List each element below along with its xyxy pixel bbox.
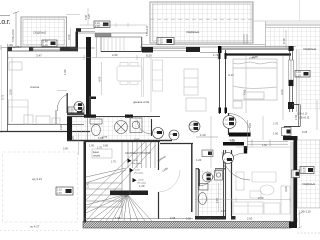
svg-text:1.90: 1.90: [273, 132, 279, 136]
svg-text:0.85: 0.85: [230, 140, 236, 144]
stair room walls: [84, 142, 194, 223]
dim lines lower: [12, 58, 290, 202]
wc door arc: [223, 153, 246, 170]
svg-text:0.25: 0.25: [302, 130, 308, 134]
interior wall vertical (hall/bedroom): [86, 37, 91, 115]
svg-text:1.20: 1.20: [301, 171, 306, 174]
svg-text:2.20: 2.20: [59, 124, 63, 130]
outer left faint line: [1, 47, 3, 133]
svg-text:СЕДЕЊЕ: СЕДЕЊЕ: [303, 47, 316, 51]
bathroom floor tiles: [72, 117, 152, 140]
living room furniture: [233, 172, 290, 214]
svg-text:СЕДЕЊЕ: СЕДЕЊЕ: [186, 30, 199, 34]
terrace T2 top-middle tiled floor: [150, 2, 253, 43]
window label box W2 above bay: [94, 21, 110, 28]
svg-text:3.26: 3.26: [67, 34, 71, 40]
svg-text:1.70: 1.70: [97, 147, 102, 150]
svg-text:1.20: 1.20: [200, 133, 206, 137]
svg-text:.О.Г.: .О.Г.: [0, 20, 11, 26]
svg-text:3.47: 3.47: [36, 54, 42, 58]
bottom walls: black bars + hatch: [0, 216, 297, 231]
window label box left lower: [56, 187, 73, 195]
svg-text:Но Смеш: Но Смеш: [135, 173, 144, 175]
svg-text:3.75: 3.75: [1, 94, 5, 100]
window label box on T3: [295, 71, 310, 78]
bedroom B1 furniture: [9, 62, 61, 124]
wardrobe tall rect: [184, 69, 206, 111]
svg-text:1.45: 1.45: [206, 217, 212, 221]
svg-text:1.60: 1.60: [262, 143, 268, 147]
svg-text:1.90: 1.90: [89, 144, 95, 148]
svg-text:1.90: 1.90: [98, 136, 104, 140]
svg-text:1.72: 1.72: [213, 53, 219, 57]
dim line vertical left of T1: [13, 12, 19, 49]
svg-text:+0.05: +0.05: [135, 170, 141, 172]
svg-text:2.05: 2.05: [158, 42, 163, 45]
stair treads and fan: [86, 142, 156, 221]
svg-text:2.00: 2.00: [258, 196, 264, 200]
svg-text:4.00: 4.00: [134, 138, 140, 142]
circled labels: [153, 116, 237, 164]
svg-text:СКАЛИШЕН ПРОСТОР: СКАЛИШЕН ПРОСТОР: [125, 152, 151, 155]
bedroom B1 left wall: [7, 47, 9, 131]
svg-text:+12.55: +12.55: [138, 180, 145, 182]
svg-text:5.08+3.00: 5.08+3.00: [11, 29, 15, 42]
bedroom B1 bottom walls: [0, 125, 90, 132]
svg-text:0.08: 0.08: [63, 148, 68, 151]
dim 1.00 left of bedroom: [1, 45, 21, 50]
window in B1 north wall: [33, 48, 60, 51]
entry walkway double lines: [247, 120, 288, 150]
svg-text:спална: спална: [30, 85, 40, 89]
right side dim verticals: [283, 30, 317, 130]
window label box left-center: [68, 107, 84, 115]
svg-text:0.25: 0.25: [72, 136, 75, 141]
terrace T3 lower part tiles: [298, 140, 320, 208]
svg-text:4.60: 4.60: [284, 186, 288, 192]
svg-text:СЕДЕЊЕ: СЕДЕЊЕ: [302, 182, 315, 186]
svg-text:1.75: 1.75: [111, 161, 116, 164]
svg-text:5.08: 5.08: [85, 15, 88, 20]
east wall steps (right side): [283, 46, 300, 224]
bathroom block walls: [67, 115, 172, 141]
bathroom fixtures: [88, 117, 143, 140]
svg-text:0.90+0.35: 0.90+0.35: [299, 118, 310, 120]
svg-text:2.05: 2.05: [95, 25, 100, 28]
terrace T3 right tiled floor: [253, 0, 320, 140]
svg-text:1.00: 1.00: [7, 43, 13, 47]
stair texts: [92, 149, 151, 158]
dashed line above bay: [66, 8, 147, 27]
svg-text:Едно: Едно: [93, 151, 100, 154]
WC tiled floor: [199, 170, 224, 215]
svg-text:4.05: 4.05: [98, 76, 102, 82]
svg-text:СЕДЕЊЕ: СЕДЕЊЕ: [33, 31, 46, 35]
stair rail dark: [110, 191, 148, 196]
terrace T1 top-left tiled floor: [21, 17, 67, 47]
svg-text:1.70: 1.70: [273, 122, 279, 126]
svg-text:2.10: 2.10: [282, 38, 286, 44]
svg-text:1.20: 1.20: [139, 184, 145, 188]
svg-text:нд 4.21: нд 4.21: [32, 177, 42, 181]
B1 door circled label: [74, 102, 84, 112]
svg-text:5.08+2.00: 5.08+2.00: [147, 25, 149, 36]
svg-text:писмо: писмо: [93, 155, 101, 158]
svg-text:дневна соба: дневна соба: [133, 100, 150, 104]
svg-text:1.90: 1.90: [63, 69, 67, 75]
svg-text:0.25: 0.25: [88, 14, 91, 19]
left lower void area faint: [3, 152, 78, 222]
svg-text:4.60: 4.60: [280, 89, 284, 95]
dining table center top: [117, 58, 144, 97]
svg-text:2.30: 2.30: [86, 182, 90, 188]
svg-text:2.00: 2.00: [247, 217, 253, 221]
svg-text:2.65: 2.65: [252, 55, 258, 59]
door label box on T2: [157, 38, 174, 45]
svg-text:1.20: 1.20: [43, 44, 48, 47]
svg-text:1.36+1.10: 1.36+1.10: [299, 210, 311, 214]
svg-text:2.90: 2.90: [112, 53, 118, 57]
B1 door arc: [57, 95, 67, 112]
dimension line row y57: [8, 55, 218, 60]
svg-text:по 4.27: по 4.27: [30, 225, 40, 229]
svg-text:+3.40: +3.40: [133, 160, 139, 162]
svg-text:1.98: 1.98: [115, 216, 121, 220]
bath door arc: [137, 120, 152, 135]
svg-text:8.20: 8.20: [146, 54, 152, 58]
svg-text:1.20: 1.20: [296, 74, 301, 77]
north wall bedroom B1: [7, 47, 78, 51]
living room walls: [160, 144, 232, 217]
corridor double wall going down: [219, 50, 228, 114]
bay window (x76-140, y28-52): [70, 28, 147, 57]
WC fixtures: [199, 171, 223, 205]
T2 right border verticals: [244, 34, 247, 44]
north wall center-right: [140, 45, 296, 55]
thin line below: [89, 96, 91, 116]
window label box on lower T3: [300, 167, 314, 174]
svg-text:0.90: 0.90: [103, 144, 109, 148]
short wall at its foot: [89, 97, 96, 100]
svg-text:0.05: 0.05: [186, 218, 191, 221]
svg-text:0.25: 0.25: [249, 123, 252, 128]
bed right bedroom: [233, 59, 277, 108]
svg-text:2.35: 2.35: [216, 198, 219, 203]
window label box W1 on terrace T1: [42, 40, 57, 47]
entry door arcs: [229, 114, 251, 136]
svg-text:0.25: 0.25: [170, 216, 176, 220]
level flags: [128, 159, 147, 185]
svg-text:0.15: 0.15: [221, 211, 226, 213]
box label wc: [202, 150, 213, 157]
svg-text:1.20: 1.20: [196, 158, 202, 162]
svg-text:1.50: 1.50: [294, 114, 298, 120]
svg-text:2.07: 2.07: [57, 192, 62, 195]
title text .О.Г. top-left: [0, 16, 11, 27]
svg-text:Но Смеш: Но Смеш: [133, 163, 142, 165]
